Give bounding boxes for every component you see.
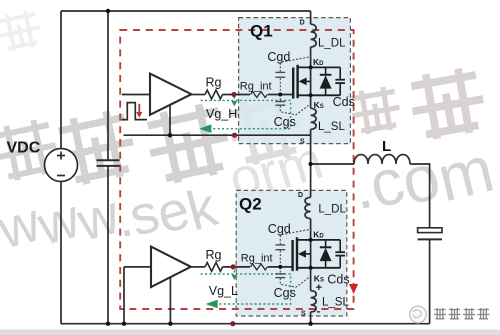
junction bottom rail / amp2 input stub xyxy=(122,322,126,326)
capacitor Cgd Q1 (dashed) xyxy=(275,57,310,95)
junction drain rail Q1 xyxy=(309,65,313,69)
wire amp2 output to Rg xyxy=(191,266,205,268)
bypass capacitor C_in xyxy=(97,160,120,166)
inductor L_DL Q1 xyxy=(311,24,317,47)
watermark hanzi 商 xyxy=(407,65,489,142)
watermark hanzi 强 xyxy=(54,107,140,188)
wire inductor L to right vertical xyxy=(410,164,430,228)
red loop current arrow xyxy=(349,284,358,294)
resistor Rg (bottom) xyxy=(205,263,222,272)
wire Rg to gate terminal Q1 xyxy=(223,94,251,96)
MOSFET Q2 xyxy=(293,237,341,271)
svg-text:Vg_H: Vg_H xyxy=(206,107,237,121)
wire bypass cap branch lower xyxy=(107,166,109,323)
svg-text:www.sek: www.sek xyxy=(0,172,224,262)
node Vg_H red dot xyxy=(231,92,236,97)
svg-text:Rg_int: Rg_int xyxy=(241,253,273,265)
junction bottom rail / cap branch xyxy=(106,322,110,326)
wire left vertical xyxy=(60,11,62,149)
inductor L_SL Q2 xyxy=(311,291,317,312)
svg-text:Q1: Q1 xyxy=(250,22,273,41)
pulse source symbol xyxy=(122,103,148,120)
node midpoint to L xyxy=(308,162,312,166)
svg-text:L_SL: L_SL xyxy=(322,297,349,309)
svg-text:.com: .com xyxy=(344,131,500,225)
driver amp U1 xyxy=(150,74,191,115)
body diode Q2 xyxy=(320,240,332,268)
junction drain rail Q2 xyxy=(309,238,313,242)
svg-text:D: D xyxy=(298,192,303,199)
resistor Rg_int Q2 xyxy=(251,264,268,270)
svg-text:VDC: VDC xyxy=(7,140,41,157)
wire bypass cap branch upper xyxy=(107,11,109,160)
svg-text:+: + xyxy=(316,282,322,294)
svg-text:L: L xyxy=(382,138,391,155)
capacitor Cgs Q1 (dashed) xyxy=(275,95,310,115)
watermark: grey tiled text www.sekorm / 世强硬创电商 xyxy=(0,8,500,261)
MOSFET Q1 xyxy=(293,65,340,99)
body diode Q1 xyxy=(320,67,332,95)
bottom grey bar xyxy=(0,329,500,335)
red dashed power loop xyxy=(120,30,353,309)
watermark hanzi 世 (faint, top-left) xyxy=(0,8,43,53)
watermark hanzi 创 xyxy=(225,91,307,168)
svg-text:-: - xyxy=(317,306,321,318)
wire midpoint to inductor L xyxy=(311,163,354,165)
junction driver return rail / amp1 xyxy=(168,133,172,137)
inductor L_SL Q1 xyxy=(311,108,317,129)
green arrow Q2 xyxy=(206,300,218,309)
wire top rail xyxy=(61,10,311,12)
wire Rg_int to gate Q1 xyxy=(268,94,293,96)
node Vg_L red dot xyxy=(231,264,236,269)
svg-text:S: S xyxy=(301,311,306,318)
wire amp1 input xyxy=(122,94,150,96)
svg-text:Rg: Rg xyxy=(206,248,222,262)
svg-text:Cgs: Cgs xyxy=(274,286,296,300)
node gate Q1 xyxy=(278,93,282,97)
svg-text:Rg_int: Rg_int xyxy=(240,81,272,93)
wire amp1 output to Rg xyxy=(191,94,205,96)
wire amp2 input stub down xyxy=(123,267,125,324)
wire Q2 source to bottom rail xyxy=(310,312,312,324)
svg-text:Cgd: Cgd xyxy=(268,222,291,236)
wire amp1 bottom to rail xyxy=(169,105,171,135)
svg-text:S: S xyxy=(300,139,305,146)
capacitor Cgs Q2 (dashed) xyxy=(275,267,310,287)
green arrow Q1 xyxy=(199,124,211,133)
wire amp2 input xyxy=(124,266,151,268)
wire Rg_int to gate Q2 xyxy=(268,266,293,268)
svg-text:L_DL: L_DL xyxy=(318,204,346,216)
junction source rail Q1 xyxy=(309,93,313,97)
wire output cap to bottom rail xyxy=(429,240,431,324)
svg-text:Vg_L: Vg_L xyxy=(209,284,238,298)
wire bottom rail xyxy=(61,323,430,325)
green gate loop Q1 xyxy=(201,97,291,129)
driver amp U2 xyxy=(151,247,191,287)
pulse red arrow xyxy=(138,104,140,113)
svg-text:D: D xyxy=(300,20,305,27)
node gate Q2 xyxy=(278,265,282,269)
junction bottom rail / amp2 xyxy=(168,322,172,326)
wire Rg to gate terminal Q2 xyxy=(223,266,251,268)
svg-text:Cgs: Cgs xyxy=(274,115,296,129)
wire Q1 drain L_DL to mosfet xyxy=(310,47,312,108)
capacitor Cds Q2 xyxy=(335,240,345,268)
wire Q1 drain entry xyxy=(310,11,312,24)
MOSFET module box Q2 xyxy=(236,190,347,316)
junction bottom rail / Q2 source xyxy=(308,322,312,326)
svg-text:Rg: Rg xyxy=(206,76,222,90)
svg-text:Q2: Q2 xyxy=(239,195,262,214)
green gate loop Q2 xyxy=(201,270,291,304)
capacitor Cds Q1 xyxy=(335,67,345,95)
voltage source VDC xyxy=(45,149,78,182)
resistor Rg_int Q1 xyxy=(251,92,268,98)
svg-text:Cgd: Cgd xyxy=(267,50,290,64)
wire below VDC xyxy=(60,182,62,324)
svg-text:L_SL: L_SL xyxy=(318,121,345,133)
wire driver return rail xyxy=(124,134,311,136)
logo text 曦芯电子 (drawn) xyxy=(434,308,490,319)
node source return Q2 red dot xyxy=(230,321,235,326)
inductor L_DL Q2 xyxy=(305,197,311,218)
MOSFET module box Q1 xyxy=(239,18,351,144)
capacitor Cgd Q2 (dashed) xyxy=(275,229,310,267)
watermark hanzi 世 xyxy=(0,117,61,184)
output capacitor xyxy=(418,228,442,233)
node source return Q1 red dot xyxy=(232,133,237,138)
svg-text:L_DL: L_DL xyxy=(318,38,346,50)
resistor Rg (top) xyxy=(205,90,222,99)
watermark hanzi 硬 xyxy=(142,100,234,187)
watermark hanzi 电 xyxy=(348,85,403,136)
logo icon xyxy=(410,306,427,323)
svg-text:Cds: Cds xyxy=(327,273,349,287)
wire amp2 bottom to rail xyxy=(169,277,171,324)
wire Q2 drain to mosfet xyxy=(310,219,312,291)
wire Q1 source to midpoint to Q2 drain xyxy=(310,129,312,197)
inductor L (output) xyxy=(354,155,410,164)
junction source rail Q2 xyxy=(309,266,313,270)
svg-text:Cds: Cds xyxy=(333,95,355,109)
junction top rail / cap branch xyxy=(106,9,110,13)
